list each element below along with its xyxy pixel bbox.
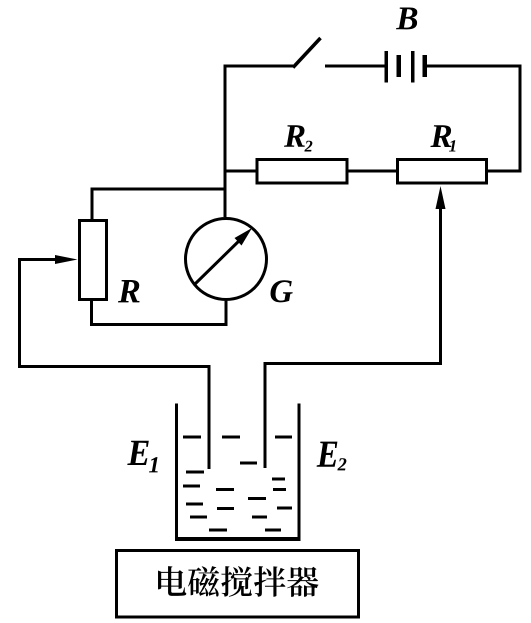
label E1 bbox=[127, 441, 157, 473]
beaker right wall bbox=[298, 404, 301, 541]
label E2 bbox=[317, 442, 347, 471]
wire bbox=[265, 205, 441, 468]
resistor R2 bbox=[257, 160, 347, 184]
wiper arrow of R1 bbox=[436, 186, 446, 209]
galvanometer G bbox=[186, 219, 267, 300]
wiper arrow of R bbox=[55, 255, 78, 264]
label R bbox=[118, 280, 140, 302]
wire bbox=[225, 170, 257, 173]
needle of G bbox=[195, 237, 243, 284]
electromagnetic stirrer box bbox=[117, 551, 359, 618]
wire bbox=[20, 260, 210, 470]
wire bbox=[92, 189, 225, 219]
beaker left wall bbox=[175, 404, 178, 541]
wire bbox=[325, 65, 385, 68]
resistor R1 bbox=[398, 160, 487, 184]
wire bbox=[225, 66, 293, 217]
wire bbox=[92, 301, 227, 325]
label R1 bbox=[430, 125, 455, 151]
wire bbox=[427, 66, 520, 171]
wire bbox=[347, 170, 398, 173]
label B bbox=[396, 7, 417, 29]
label G bbox=[271, 280, 293, 302]
label 电磁搅拌器 bbox=[158, 566, 318, 597]
battery B plate short bbox=[423, 55, 428, 77]
switch S bbox=[293, 38, 321, 68]
label R2 bbox=[284, 125, 312, 151]
liquid dashes bbox=[183, 437, 292, 530]
battery B plate long bbox=[411, 51, 415, 83]
battery B plate long bbox=[385, 51, 389, 83]
resistor R bbox=[80, 221, 107, 300]
battery B plate short bbox=[397, 55, 402, 77]
beaker bottom bbox=[175, 537, 301, 541]
